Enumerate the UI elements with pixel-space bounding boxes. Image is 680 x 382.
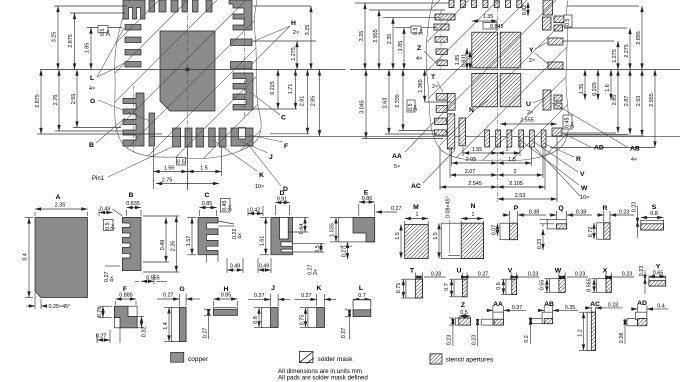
svg-text:0.23: 0.23 (537, 239, 543, 250)
top-left corner pad (123, 0, 145, 19)
svg-text:0.4: 0.4 (657, 304, 665, 310)
pad G detail (171, 307, 186, 341)
svg-text:0.27: 0.27 (301, 293, 312, 299)
detail W (539, 268, 588, 293)
svg-text:2.955: 2.955 (373, 29, 379, 43)
svg-text:K: K (259, 172, 264, 179)
svg-text:J: J (269, 154, 273, 161)
aperture Y (649, 278, 666, 286)
svg-text:0.27: 0.27 (203, 328, 209, 339)
svg-text:AA: AA (493, 301, 503, 308)
dim 2.35 (392, 18, 394, 70)
package outline blob (115, 0, 261, 159)
dim 3.25 right (310, 6, 312, 70)
dim 1.55 (154, 171, 188, 173)
pads Y 2x (548, 38, 563, 45)
svg-text:3.25: 3.25 (52, 32, 58, 43)
detail R (588, 205, 634, 239)
dim 1.55 / 1 (463, 152, 498, 154)
svg-text:1.35: 1.35 (579, 84, 585, 95)
svg-text:copper: copper (188, 356, 209, 363)
right lower pads (543, 90, 551, 110)
svg-text:0.85: 0.85 (202, 201, 213, 207)
svg-text:0.27: 0.27 (478, 272, 489, 278)
svg-text:3×: 3× (570, 122, 576, 128)
pads T group lower-left (436, 94, 447, 101)
svg-text:1.035: 1.035 (330, 223, 336, 237)
svg-text:0.225: 0.225 (270, 81, 276, 95)
pad J detail (262, 308, 279, 328)
dim 1.365 (424, 70, 426, 103)
dim 2.75 (156, 183, 219, 185)
dim 1.275 right (296, 41, 298, 70)
svg-text:0.565: 0.565 (146, 276, 160, 282)
svg-text:2.93: 2.93 (636, 96, 642, 107)
svg-text:0.42: 0.42 (250, 208, 261, 214)
dim 2.55 (76, 70, 78, 128)
svg-text:0.27: 0.27 (163, 293, 174, 299)
pad G (149, 113, 155, 146)
svg-text:1: 1 (416, 212, 419, 218)
detail Y (639, 264, 666, 295)
svg-text:2.05: 2.05 (466, 157, 477, 163)
detail AB (524, 301, 578, 344)
svg-text:0.27: 0.27 (391, 206, 402, 212)
dim 2.545 / 2.105 (440, 186, 498, 188)
svg-text:C: C (205, 192, 210, 199)
svg-text:0.82: 0.82 (522, 5, 528, 16)
svg-text:2.955: 2.955 (649, 93, 655, 107)
pad F detail (114, 306, 137, 328)
aperture R (597, 223, 610, 239)
svg-text:2.335: 2.335 (395, 94, 401, 108)
svg-text:2.07: 2.07 (465, 169, 476, 175)
svg-text:L: L (90, 75, 94, 82)
svg-text:H: H (291, 20, 296, 27)
svg-text:K: K (317, 285, 322, 292)
legend solder mask (299, 352, 353, 364)
boxed dim 0.5 3x top-left (98, 26, 108, 33)
centerline vertical right (497, 0, 499, 202)
dim 2.955 (378, 10, 380, 70)
detail F (96, 286, 148, 343)
svg-text:0.28: 0.28 (431, 272, 442, 278)
detail X (587, 268, 635, 293)
svg-text:2.555: 2.555 (520, 118, 534, 124)
pad L detail (353, 300, 371, 317)
svg-text:1.85: 1.85 (398, 41, 404, 52)
svg-text:0.23: 0.23 (632, 202, 638, 213)
svg-text:3.045: 3.045 (360, 100, 366, 114)
svg-text:All pads are solder mask defin: All pads are solder mask defined (278, 375, 368, 382)
bottom dims right fig (462, 147, 464, 156)
pad D detail (271, 217, 293, 254)
comb pad C right (233, 73, 253, 110)
svg-text:5×: 5× (394, 164, 400, 170)
svg-text:4×: 4× (416, 56, 422, 62)
svg-text:AA: AA (392, 153, 402, 160)
dim 3.25 left (57, 6, 59, 70)
svg-text:0.65: 0.65 (653, 270, 664, 276)
svg-text:W: W (555, 268, 562, 275)
svg-text:B: B (129, 192, 134, 199)
svg-text:V: V (580, 171, 585, 178)
svg-text:0.23: 0.23 (619, 210, 630, 216)
svg-text:4×: 4× (110, 276, 116, 282)
inner dims 1.85 / 0.831 (466, 48, 468, 70)
detail K (295, 285, 336, 327)
dim 1.71 right (295, 70, 297, 110)
left figure dimensions (35, 6, 680, 193)
package outline blob right (426, 0, 568, 160)
dim 3.25 (364, 3, 366, 70)
aperture AB (532, 319, 545, 324)
boxed 0.5 3x upper-left (411, 26, 421, 33)
svg-text:4×: 4× (89, 86, 95, 92)
svg-text:M: M (413, 204, 419, 211)
detail M (395, 204, 428, 259)
svg-text:2×: 2× (527, 110, 533, 116)
svg-text:G: G (179, 286, 184, 293)
svg-text:0.23: 0.23 (608, 302, 619, 308)
dim 2.85 right (319, 70, 321, 137)
svg-text:AB: AB (630, 146, 640, 153)
detail AA (471, 301, 526, 346)
svg-text:0.23: 0.23 (471, 335, 477, 346)
svg-text:0.85: 0.85 (221, 293, 232, 299)
svg-text:1: 1 (472, 212, 475, 218)
extension lines right fig (355, 2, 449, 4)
svg-text:2×: 2× (529, 58, 535, 64)
detail AC (578, 301, 623, 351)
svg-text:2.875: 2.875 (35, 94, 41, 108)
chamfer dim 0.25x45 (34, 293, 36, 309)
svg-text:3×: 3× (413, 105, 419, 111)
svg-text:0.23: 0.23 (528, 272, 539, 278)
svg-text:0.565: 0.565 (587, 278, 593, 292)
svg-text:G: G (90, 98, 95, 105)
svg-text:1.5: 1.5 (508, 157, 516, 163)
svg-text:2.35: 2.35 (55, 203, 66, 209)
center stencil blocks 2x2 (472, 32, 498, 68)
svg-text:3×: 3× (419, 29, 425, 35)
svg-text:2.87: 2.87 (624, 96, 630, 107)
svg-text:0.2: 0.2 (524, 335, 530, 343)
svg-text:1.5: 1.5 (395, 232, 401, 240)
svg-text:P: P (514, 205, 519, 212)
svg-text:2.63: 2.63 (383, 98, 389, 109)
svg-text:0.23: 0.23 (622, 272, 633, 278)
right side dims lower (563, 132, 616, 134)
aperture Z (455, 318, 470, 325)
svg-text:2.105: 2.105 (509, 181, 523, 187)
svg-text:0.35: 0.35 (565, 305, 576, 311)
svg-text:1.55: 1.55 (164, 166, 175, 172)
svg-text:0.27: 0.27 (342, 247, 348, 258)
svg-text:0.49: 0.49 (259, 264, 270, 270)
top dim 1.35 (472, 20, 498, 22)
detail D (248, 190, 324, 275)
svg-text:C: C (281, 115, 286, 122)
dims 1.35 / 0.225 / 1.6 right of fig (584, 70, 586, 101)
svg-text:2: 2 (514, 169, 517, 175)
svg-text:A: A (56, 194, 61, 201)
svg-text:0.75: 0.75 (300, 315, 306, 326)
detail AD (619, 300, 668, 344)
svg-text:0.27: 0.27 (341, 328, 347, 339)
svg-text:1.55: 1.55 (472, 147, 483, 153)
svg-text:stencil apertures: stencil apertures (446, 357, 494, 364)
pads Z 4x (435, 37, 447, 43)
svg-text:2×: 2× (313, 269, 319, 275)
dim 2.875 left lower (40, 70, 42, 135)
right figure dimensions (355, 2, 655, 202)
svg-text:0.49: 0.49 (230, 264, 241, 270)
top-right comb pad (229, 0, 252, 30)
left figure: copper/solder-mask land pattern (0, 0, 449, 192)
svg-text:3.4: 3.4 (23, 253, 29, 261)
svg-text:10×: 10× (255, 184, 264, 190)
detail L (341, 285, 371, 339)
bottom stencil pad row (485, 130, 490, 147)
svg-text:W: W (581, 185, 588, 192)
svg-text:0.32: 0.32 (142, 327, 148, 338)
svg-text:2.875: 2.875 (68, 34, 74, 48)
svg-text:1: 1 (506, 147, 509, 153)
svg-text:0.835: 0.835 (126, 201, 140, 207)
aperture AA (481, 319, 493, 325)
top-left stencil pads (435, 14, 455, 20)
top pad row (149, 0, 155, 12)
svg-text:0.5: 0.5 (177, 160, 185, 166)
svg-text:2.545: 2.545 (468, 181, 482, 187)
svg-text:0.76: 0.76 (97, 307, 103, 318)
aperture M (405, 224, 429, 258)
svg-text:0.38: 0.38 (529, 210, 540, 216)
detail U (444, 268, 490, 297)
svg-text:0.8: 0.8 (650, 211, 658, 217)
svg-text:0.5: 0.5 (565, 19, 571, 27)
svg-text:Z: Z (417, 45, 421, 52)
ref lines middle (362, 138, 443, 140)
detail J (248, 285, 290, 327)
detail S (632, 202, 664, 238)
svg-text:1.2: 1.2 (578, 329, 584, 337)
svg-text:0.91: 0.91 (277, 197, 288, 203)
svg-text:0.8: 0.8 (253, 316, 259, 324)
dim 0.82 top right (527, 2, 529, 16)
svg-text:2.76: 2.76 (53, 95, 59, 106)
dim 2.53 (498, 198, 558, 200)
boxed 0.845 (483, 23, 497, 30)
svg-text:2×: 2× (293, 30, 299, 36)
svg-text:0.49: 0.49 (100, 207, 111, 213)
boxed 0.45 3x (563, 115, 572, 129)
pad H detail (213, 307, 237, 315)
svg-text:0.86: 0.86 (362, 196, 373, 202)
svg-text:Y: Y (529, 47, 534, 54)
extension lines (54, 5, 127, 7)
svg-text:AD: AD (594, 145, 604, 152)
boxed dim 0.5 bottom (177, 158, 186, 166)
svg-text:0.23: 0.23 (575, 272, 586, 278)
boxed 0.5 3x lower-left (407, 100, 415, 112)
svg-text:2.35: 2.35 (387, 34, 393, 45)
dim 2.335 (402, 70, 404, 131)
comb pad C detail (198, 217, 218, 254)
svg-text:2.85: 2.85 (612, 95, 618, 106)
comb pad B left (123, 93, 144, 146)
svg-text:1.4: 1.4 (163, 322, 169, 330)
dim 0.225 right (277, 70, 279, 110)
detail Q (537, 205, 592, 250)
svg-text:X: X (603, 268, 608, 275)
svg-text:1.275: 1.275 (291, 47, 297, 61)
svg-text:1.275: 1.275 (612, 49, 618, 63)
centerline pads vertical left (133, 86, 135, 152)
svg-text:3×: 3× (111, 224, 117, 230)
dim 2.875 left upper (74, 13, 76, 70)
pad E detail (339, 217, 375, 242)
svg-text:2.53: 2.53 (515, 193, 526, 199)
svg-text:0.885: 0.885 (119, 293, 133, 299)
svg-text:L: L (359, 285, 363, 292)
svg-text:Pin1: Pin1 (92, 176, 105, 182)
svg-text:0.72: 0.72 (588, 227, 594, 238)
dim 2.63 (388, 70, 390, 135)
dim 3.045 (365, 70, 367, 139)
svg-text:U: U (457, 268, 462, 275)
svg-text:2.75: 2.75 (162, 178, 173, 184)
center pad (160, 31, 215, 111)
centerline horizontal (40, 69, 345, 71)
legend stencil apertures (430, 354, 494, 364)
dim 2.81 right (307, 70, 309, 134)
detail Z (447, 302, 471, 346)
svg-text:1.5: 1.5 (200, 166, 208, 172)
dim 2.76 (58, 70, 60, 132)
detail V (496, 268, 540, 295)
svg-text:3.25: 3.25 (359, 31, 365, 42)
svg-text:0.08×45°: 0.08×45° (446, 196, 452, 218)
svg-text:AD: AD (637, 300, 647, 307)
svg-text:B: B (89, 142, 94, 149)
svg-text:0.7: 0.7 (358, 293, 366, 299)
pads L 4x (125, 25, 141, 31)
aperture Q (547, 220, 567, 229)
svg-text:0.75: 0.75 (396, 283, 402, 294)
right figure: stencil aperture pattern (280, 0, 680, 202)
aperture N (441, 223, 483, 258)
svg-text:AC: AC (411, 183, 421, 190)
dim 2.555 (500, 123, 557, 125)
svg-text:0.831: 0.831 (462, 54, 468, 68)
svg-text:0.5: 0.5 (315, 245, 321, 253)
top stencil pad row (449, 0, 454, 8)
svg-text:1.85: 1.85 (85, 43, 91, 54)
aperture AD (627, 319, 638, 326)
aperture S (641, 221, 664, 230)
svg-text:0.27: 0.27 (254, 293, 265, 299)
svg-text:0.38: 0.38 (576, 210, 587, 216)
dim 1.85 (403, 28, 405, 70)
detail B (99, 192, 179, 284)
svg-text:0.23: 0.23 (447, 335, 453, 346)
legend copper (171, 352, 209, 363)
detail P (492, 205, 547, 240)
svg-text:3×: 3× (106, 30, 112, 36)
svg-text:3×: 3× (228, 205, 234, 211)
boxed 0.5 right (564, 15, 572, 27)
svg-text:N: N (471, 203, 476, 210)
comb pad B detail (122, 217, 141, 270)
svg-text:3.25: 3.25 (305, 25, 311, 36)
detail C (186, 192, 244, 273)
svg-text:solder mask: solder mask (318, 356, 354, 363)
svg-text:2×: 2× (432, 84, 438, 90)
svg-text:0.23: 0.23 (639, 266, 645, 277)
svg-text:2.26: 2.26 (170, 241, 176, 252)
svg-text:2.895: 2.895 (636, 31, 642, 45)
svg-text:R: R (603, 205, 608, 212)
aperture AC (587, 312, 595, 350)
aperture P (500, 223, 518, 240)
svg-text:0.5: 0.5 (460, 310, 468, 316)
svg-text:Q: Q (558, 205, 563, 212)
detail T (396, 268, 446, 299)
svg-text:2.55: 2.55 (71, 94, 77, 105)
detail N (433, 196, 484, 258)
detail H (203, 286, 238, 339)
svg-text:Z: Z (461, 302, 465, 309)
pads H 2x (231, 39, 253, 46)
svg-text:10×: 10× (580, 195, 589, 201)
dim 1.5 (188, 171, 222, 173)
bottom dims (153, 147, 155, 189)
pads AA tall (447, 94, 455, 111)
svg-text:R: R (576, 156, 581, 163)
bottom pad row (173, 128, 181, 147)
svg-text:J: J (271, 285, 275, 292)
svg-text:1.57: 1.57 (186, 236, 192, 247)
svg-text:0.845: 0.845 (490, 24, 504, 30)
detail A (23, 194, 88, 310)
centerline pads vertical right (440, 10, 442, 70)
svg-text:1.6: 1.6 (605, 84, 611, 92)
top-right stencil pads (543, 0, 553, 15)
svg-text:2.81: 2.81 (300, 96, 306, 107)
pad K detail (308, 308, 325, 328)
svg-text:0.64: 0.64 (299, 224, 305, 235)
dim 1.85 left (90, 28, 92, 70)
svg-text:1.61: 1.61 (260, 236, 266, 247)
svg-text:0.07: 0.07 (492, 225, 498, 236)
svg-text:4×: 4× (631, 157, 637, 163)
dim 2.05 / 1.5 (452, 162, 498, 164)
svg-text:0.225: 0.225 (592, 82, 598, 96)
svg-text:1.365: 1.365 (418, 79, 424, 93)
svg-text:0.28: 0.28 (619, 333, 625, 344)
svg-text:0.55: 0.55 (539, 280, 545, 291)
svg-text:0.37: 0.37 (512, 305, 523, 311)
svg-text:0.49: 0.49 (160, 240, 166, 251)
svg-text:2.85: 2.85 (311, 96, 317, 107)
centerline horizontal right (shared) (350, 69, 680, 71)
svg-text:0.25×45°: 0.25×45° (49, 304, 71, 310)
svg-text:S: S (652, 204, 657, 211)
dim 2.07 / 2 (450, 174, 498, 176)
right side dims upper (563, 40, 614, 42)
